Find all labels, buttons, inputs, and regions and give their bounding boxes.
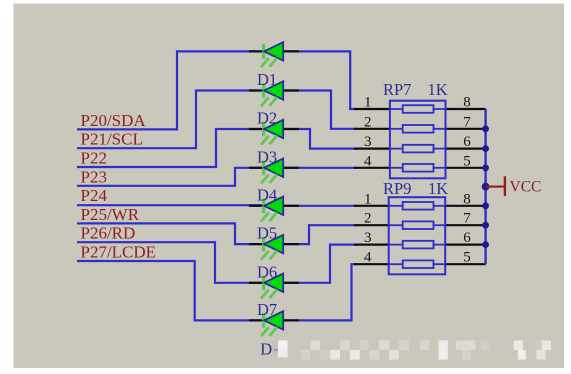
pin stub RP9.5 right <box>445 263 486 265</box>
wire net P26/RD to D6 <box>77 242 263 283</box>
resistor R in RP9 row4 <box>403 260 434 268</box>
svg-text:VCC: VCC <box>510 178 542 195</box>
svg-text:6: 6 <box>463 230 471 246</box>
svg-text:P27/LCDE: P27/LCDE <box>81 243 157 262</box>
svg-text:3: 3 <box>364 230 372 246</box>
wire D1 anode to RP7 pin2 <box>284 91 356 129</box>
pin stub RP7.1 left <box>354 108 390 110</box>
pin stub RP7.6 right <box>445 148 486 150</box>
resistor R in RP7 row1 <box>403 105 434 113</box>
wire net P25/WR to D5 <box>77 223 263 244</box>
LED D6 <box>249 274 299 299</box>
resistor R in RP9 row1 <box>403 202 434 210</box>
PIN-STUBS <box>354 109 486 264</box>
wire net P23 to D3 <box>77 168 263 186</box>
wire net P27/LCDE to D7 <box>77 261 263 320</box>
wire D3 anode to RP7 pin4 <box>284 167 356 169</box>
svg-text:RP7: RP7 <box>383 80 411 99</box>
pin stub RP9.4 left <box>354 263 390 265</box>
junction RP9.8 <box>482 202 489 209</box>
LED D1 <box>249 81 299 106</box>
RP7 internal resistor lead wires <box>390 109 446 168</box>
wire net P22 to D2 <box>77 129 263 167</box>
pin stub RP7.5 right <box>445 167 486 169</box>
LED D5 <box>249 235 299 260</box>
resistor R in RP7 row2 <box>403 125 434 133</box>
pin stub RP9.6 right <box>445 244 486 246</box>
resistor R in RP7 row4 <box>403 164 434 172</box>
svg-text:P24: P24 <box>81 186 108 205</box>
resistor pack RP9 <box>389 197 446 274</box>
resistor pack RP7 <box>390 101 446 179</box>
svg-text:4: 4 <box>364 250 372 266</box>
svg-text:1: 1 <box>364 191 372 207</box>
pin stub RP7.3 left <box>354 148 390 150</box>
pin stub RP7.8 right <box>445 108 486 110</box>
svg-text:2: 2 <box>364 211 372 227</box>
pin stub RP7.2 left <box>354 128 390 130</box>
WIRES-LEFT <box>77 51 263 320</box>
svg-text:P22: P22 <box>81 149 107 168</box>
WIRES-RIGHT <box>284 51 356 320</box>
junction RP7.6 <box>482 145 489 152</box>
svg-text:D2: D2 <box>257 109 277 128</box>
svg-text:D1: D1 <box>257 70 277 89</box>
wire net P21/SCL to D1 <box>77 91 263 149</box>
svg-text:P23: P23 <box>81 167 107 186</box>
svg-text:D4: D4 <box>257 185 277 204</box>
wire D7 anode to RP9 pin4 <box>284 264 356 320</box>
svg-text:RP9: RP9 <box>383 179 411 198</box>
svg-text:P26/RD: P26/RD <box>81 224 136 243</box>
watermark mosaic band (decorative blur) <box>273 341 279 355</box>
LED D4 <box>249 197 299 222</box>
pin stub RP9.3 left <box>354 244 390 246</box>
junction RP9.7 <box>482 222 489 229</box>
junction RP7.5 <box>482 164 489 171</box>
LED D7 <box>249 311 299 336</box>
svg-text:7: 7 <box>463 211 471 227</box>
wire LED0 anode to RP7 pin1 <box>284 51 356 109</box>
pin stub RP9.1 left <box>354 205 390 207</box>
wire D6 anode to RP9 pin3 <box>284 245 356 283</box>
svg-text:1K: 1K <box>428 80 448 99</box>
LED D2 <box>249 120 299 145</box>
wire net P20/SDA to LED0 <box>77 51 263 129</box>
svg-text:D7: D7 <box>257 300 277 319</box>
svg-text:3: 3 <box>364 134 372 150</box>
pin stub RP7.4 left <box>354 167 390 169</box>
resistor R in RP9 row2 <box>403 221 434 229</box>
svg-text:4: 4 <box>364 153 372 169</box>
svg-text:P20/SDA: P20/SDA <box>81 111 147 130</box>
pin stub RP9.7 right <box>445 224 486 226</box>
pin stub RP9.2 left <box>354 224 390 226</box>
junction RP9.6 <box>482 241 489 248</box>
svg-text:8: 8 <box>463 95 471 111</box>
resistor R in RP9 row3 <box>403 241 434 249</box>
LED LED0 <box>249 42 299 67</box>
pin stub RP7.7 right <box>445 128 486 130</box>
wire D2 anode to RP7 pin3 <box>284 129 356 149</box>
svg-text:D: D <box>260 339 272 358</box>
LED D3 <box>249 159 299 184</box>
svg-text:D5: D5 <box>257 224 277 243</box>
power symbol VCC <box>486 176 505 196</box>
RP9 internal resistor lead wires <box>389 206 446 264</box>
wire net P24 to D4 <box>77 204 263 206</box>
svg-text:D6: D6 <box>257 262 277 281</box>
svg-text:D3: D3 <box>257 147 277 166</box>
pin stub RP9.8 right <box>445 205 486 207</box>
svg-text:8: 8 <box>463 191 471 207</box>
svg-text:5: 5 <box>463 153 471 169</box>
svg-text:5: 5 <box>463 250 471 266</box>
svg-text:1K: 1K <box>428 179 448 198</box>
junction RP7.7 <box>482 125 489 132</box>
resistor R in RP7 row3 <box>403 145 434 153</box>
svg-text:7: 7 <box>463 114 471 130</box>
svg-text:2: 2 <box>364 114 372 130</box>
svg-text:P25/WR: P25/WR <box>81 205 140 224</box>
partially obscured designator mark after D <box>274 349 278 351</box>
wire D4 anode to RP9 pin1 <box>284 205 356 207</box>
junction VCC tap <box>482 183 490 191</box>
wire VCC bus vertical <box>484 109 486 264</box>
svg-text:P21/SCL: P21/SCL <box>81 130 143 149</box>
svg-text:1: 1 <box>364 95 372 111</box>
svg-text:6: 6 <box>463 134 471 150</box>
wire D5 anode to RP9 pin2 <box>284 225 356 244</box>
